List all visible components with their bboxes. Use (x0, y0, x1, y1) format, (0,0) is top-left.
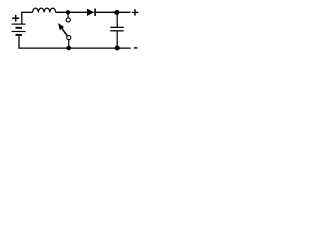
inductor L1 (33, 8, 56, 12)
capacitor C1 top plate (110, 26, 123, 28)
node B junction dot (114, 10, 119, 15)
output minus label (134, 47, 138, 49)
capacitor C1 bottom wire (116, 31, 118, 48)
diode D1 triangle (87, 9, 94, 16)
diode D1 cathode bar (94, 9, 96, 16)
output plus label (132, 9, 139, 16)
switch S1 bottom wire (68, 40, 70, 49)
switch S1 top contact circle (66, 18, 70, 22)
node C junction dot on bottom rail under switch (66, 46, 71, 51)
battery B1 plate short 2 (16, 34, 23, 36)
battery B1 bottom wire (18, 36, 20, 48)
switch S1 bottom contact circle (67, 36, 71, 40)
battery B1 plate long 1 (12, 23, 26, 25)
wire top rail middle (56, 11, 88, 13)
node D junction dot on bottom rail under capacitor (115, 45, 120, 50)
node A junction dot (66, 10, 70, 14)
battery B1 plate short 1 (16, 27, 23, 29)
battery B1 plate long 2 (12, 31, 26, 33)
switch S1 stub from node A (67, 12, 69, 17)
wire top rail right (95, 11, 130, 13)
switch S1 arrowhead (58, 23, 64, 30)
switch S1 arm wire (61, 27, 68, 37)
battery B1 top wire (21, 12, 23, 23)
wire bottom rail (18, 47, 130, 49)
capacitor C1 top wire (116, 12, 118, 27)
capacitor C1 bottom plate (110, 30, 123, 32)
battery B1 plus label (12, 15, 19, 22)
wire top rail left (21, 11, 32, 13)
